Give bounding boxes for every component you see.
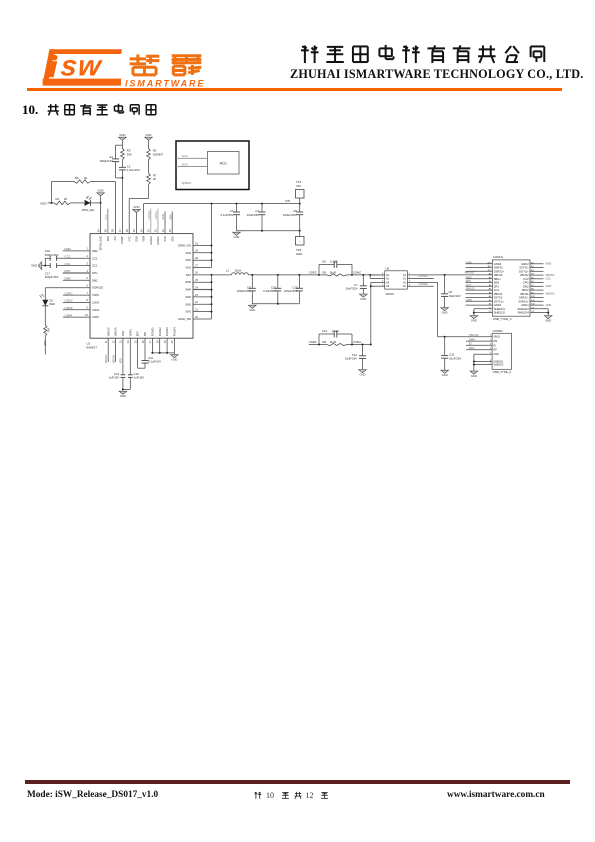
svg-text:VBUSC: VBUSC bbox=[466, 287, 475, 291]
svg-text:SHIELD3: SHIELD3 bbox=[517, 307, 529, 311]
svg-text:GND: GND bbox=[442, 311, 448, 315]
svg-text:VDD: VDD bbox=[121, 331, 125, 337]
svg-text:GND: GND bbox=[146, 133, 152, 137]
svg-text:SBU2: SBU2 bbox=[522, 288, 530, 292]
svg-text:41: 41 bbox=[195, 241, 198, 245]
svg-text:36: 36 bbox=[125, 229, 129, 232]
svg-text:DPA: DPA bbox=[469, 346, 475, 350]
svg-text:CSNA: CSNA bbox=[92, 308, 99, 312]
svg-text:VBUSA: VBUSA bbox=[469, 333, 479, 337]
svg-text:4: 4 bbox=[87, 269, 89, 273]
svg-text:ID: ID bbox=[493, 344, 496, 347]
svg-text:VIN3: VIN3 bbox=[185, 251, 191, 255]
svg-text:CSNC: CSNC bbox=[92, 300, 99, 304]
svg-text:DPC: DPC bbox=[466, 279, 472, 283]
svg-text:GND2: GND2 bbox=[494, 262, 502, 266]
svg-text:40: 40 bbox=[195, 315, 198, 319]
svg-text:GND: GND bbox=[360, 297, 366, 301]
svg-text:GND: GND bbox=[471, 319, 477, 323]
svg-text:D1: D1 bbox=[386, 277, 390, 280]
svg-text:SDA: SDA bbox=[182, 162, 188, 166]
svg-text:1uF/16V: 1uF/16V bbox=[134, 376, 145, 380]
svg-text:VBUSC: VBUSC bbox=[546, 292, 555, 296]
svg-text:G1: G1 bbox=[403, 277, 407, 280]
svg-text:38: 38 bbox=[111, 229, 115, 232]
svg-text:GATEA: GATEA bbox=[419, 282, 429, 286]
svg-text:5: 5 bbox=[87, 276, 89, 280]
svg-text:GATEC: GATEC bbox=[156, 236, 160, 245]
svg-text:32: 32 bbox=[154, 229, 158, 232]
svg-text:37: 37 bbox=[118, 229, 122, 232]
svg-text:GND: GND bbox=[31, 264, 37, 268]
svg-text:GND: GND bbox=[360, 373, 366, 377]
svg-text:ICA: ICA bbox=[113, 236, 117, 241]
svg-text:DP2: DP2 bbox=[523, 281, 529, 285]
svg-text:20: 20 bbox=[170, 340, 174, 343]
svg-text:GND: GND bbox=[120, 394, 126, 398]
svg-text:GATEC: GATEC bbox=[154, 211, 158, 220]
svg-text:SSTX2+: SSTX2+ bbox=[519, 269, 530, 273]
svg-text:CSPA: CSPA bbox=[309, 340, 317, 344]
svg-text:SSRX1+: SSRX1+ bbox=[518, 299, 529, 303]
svg-text:7: 7 bbox=[87, 291, 89, 295]
svg-text:VIN: VIN bbox=[296, 184, 301, 188]
svg-text:VBM: VBM bbox=[142, 236, 146, 242]
svg-text:SSTX1+: SSTX1+ bbox=[494, 299, 505, 303]
svg-text:30: 30 bbox=[168, 229, 172, 232]
svg-text:SW4: SW4 bbox=[185, 288, 191, 292]
svg-text:300pF/16V: 300pF/16V bbox=[45, 253, 59, 257]
svg-text:CC1: CC1 bbox=[494, 288, 500, 292]
svg-text:39: 39 bbox=[104, 229, 108, 232]
svg-text:27: 27 bbox=[195, 263, 198, 267]
svg-text:L1: L1 bbox=[226, 268, 230, 272]
svg-text:SSTX1-: SSTX1- bbox=[494, 296, 504, 300]
svg-text:R5: R5 bbox=[323, 270, 327, 274]
svg-text:CC2: CC2 bbox=[523, 277, 529, 281]
svg-text:17: 17 bbox=[148, 340, 152, 343]
svg-text:VBUS2: VBUS2 bbox=[520, 273, 529, 277]
svg-text:24: 24 bbox=[195, 285, 198, 289]
svg-text:GATEA: GATEA bbox=[149, 236, 153, 245]
svg-text:SSRX2+: SSRX2+ bbox=[494, 269, 505, 273]
svg-text:ID: ID bbox=[469, 342, 472, 346]
svg-text:VIN: VIN bbox=[285, 199, 290, 203]
svg-text:34: 34 bbox=[139, 229, 143, 232]
svg-text:VBUSC: VBUSC bbox=[104, 354, 108, 363]
svg-text:GND: GND bbox=[296, 252, 302, 256]
svg-text:2K: 2K bbox=[84, 176, 88, 180]
svg-text:12: 12 bbox=[111, 340, 115, 343]
svg-text:100uF/25V: 100uF/25V bbox=[283, 213, 297, 217]
svg-text:16: 16 bbox=[141, 340, 145, 343]
svg-text:3: 3 bbox=[87, 261, 89, 265]
svg-text:2K: 2K bbox=[64, 197, 68, 201]
svg-text:GND1: GND1 bbox=[494, 303, 502, 307]
svg-text:CSNA: CSNA bbox=[65, 306, 73, 310]
svg-text:CC2: CC2 bbox=[65, 255, 71, 259]
svg-text:VIN2: VIN2 bbox=[185, 258, 191, 262]
svg-text:SHIELD2: SHIELD2 bbox=[493, 364, 504, 367]
svg-text:U6: U6 bbox=[386, 266, 390, 270]
svg-text:0.1uF: 0.1uF bbox=[332, 329, 339, 333]
svg-text:DPA: DPA bbox=[106, 236, 110, 241]
svg-text:26: 26 bbox=[195, 271, 198, 275]
svg-text:CONN1: CONN1 bbox=[493, 255, 504, 259]
svg-text:CSNC: CSNC bbox=[353, 270, 361, 274]
svg-text:VDRV: VDRV bbox=[128, 329, 132, 336]
svg-text:C12: C12 bbox=[322, 329, 328, 333]
svg-text:10uF/16V: 10uF/16V bbox=[449, 294, 461, 298]
svg-text:30K: 30K bbox=[127, 152, 132, 156]
svg-text:DMC: DMC bbox=[92, 278, 98, 282]
svg-text:2: 2 bbox=[87, 254, 89, 258]
svg-text:SBU1: SBU1 bbox=[494, 277, 502, 281]
svg-text:NOMNT: NOMNT bbox=[153, 152, 164, 156]
svg-text:0.1uF/50V: 0.1uF/50V bbox=[263, 289, 276, 293]
svg-text:5mR: 5mR bbox=[330, 340, 336, 344]
svg-text:PGND4: PGND4 bbox=[173, 327, 177, 336]
svg-text:GND: GND bbox=[135, 236, 139, 242]
svg-text:CC1: CC1 bbox=[65, 262, 71, 266]
svg-text:EPAD_GND: EPAD_GND bbox=[99, 236, 103, 250]
svg-text:SHIELD2: SHIELD2 bbox=[494, 311, 506, 315]
svg-text:23: 23 bbox=[195, 293, 198, 297]
svg-text:DMC: DMC bbox=[466, 275, 472, 279]
svg-text:10: 10 bbox=[85, 313, 88, 317]
svg-text:S2: S2 bbox=[403, 282, 407, 285]
svg-text:-: - bbox=[299, 240, 301, 244]
svg-text:VBUS1: VBUS1 bbox=[520, 292, 529, 296]
svg-text:0.1uF/50V: 0.1uF/50V bbox=[221, 213, 234, 217]
svg-text:NTC: NTC bbox=[127, 236, 131, 241]
svg-text:DMA: DMA bbox=[92, 249, 98, 253]
svg-text:GATEA: GATEA bbox=[147, 211, 151, 220]
svg-text:EA06XT: EA06XT bbox=[87, 346, 98, 350]
svg-text:8: 8 bbox=[87, 298, 89, 302]
svg-text:EPAD_VIN: EPAD_VIN bbox=[178, 244, 191, 248]
svg-text:USB_TYPE_A: USB_TYPE_A bbox=[493, 370, 512, 374]
svg-text:DP: DP bbox=[493, 349, 497, 352]
svg-text:GATEC: GATEC bbox=[419, 274, 429, 278]
svg-text:GND1: GND1 bbox=[521, 303, 529, 307]
svg-text:14: 14 bbox=[126, 340, 130, 343]
svg-text:35: 35 bbox=[132, 229, 136, 232]
svg-text:DPC: DPC bbox=[65, 269, 71, 273]
svg-text:2.2uF/16V: 2.2uF/16V bbox=[127, 168, 140, 172]
svg-text:D2: D2 bbox=[386, 285, 390, 288]
svg-text:RED: RED bbox=[50, 302, 56, 306]
svg-text:100pF/16V: 100pF/16V bbox=[99, 159, 113, 163]
svg-text:BST: BST bbox=[136, 331, 140, 336]
svg-text:DP1: DP1 bbox=[494, 284, 500, 288]
svg-text:5mR: 5mR bbox=[330, 270, 336, 274]
svg-text:9: 9 bbox=[87, 306, 89, 310]
svg-text:28: 28 bbox=[195, 256, 198, 260]
svg-text:19: 19 bbox=[163, 340, 167, 343]
svg-text:CSPC: CSPC bbox=[309, 270, 317, 274]
svg-text:DM2: DM2 bbox=[523, 284, 529, 288]
svg-text:SSRX1-: SSRX1- bbox=[519, 296, 529, 300]
svg-text:220uF/25V: 220uF/25V bbox=[284, 289, 298, 293]
svg-text:D2: D2 bbox=[386, 282, 390, 285]
svg-text:CSPA: CSPA bbox=[92, 315, 99, 319]
svg-text:GND: GND bbox=[546, 262, 552, 266]
svg-text:GND: GND bbox=[442, 373, 448, 377]
svg-text:29: 29 bbox=[195, 249, 198, 253]
svg-text:VBUSC: VBUSC bbox=[465, 270, 475, 274]
svg-text:SDA: SDA bbox=[170, 236, 174, 242]
svg-text:SCK: SCK bbox=[161, 214, 165, 220]
svg-text:EPAD_SW: EPAD_SW bbox=[179, 317, 192, 321]
svg-text:GND: GND bbox=[133, 205, 139, 209]
svg-text:C8: C8 bbox=[322, 260, 326, 264]
svg-text:SW3: SW3 bbox=[185, 295, 191, 299]
svg-text:SDA: SDA bbox=[168, 214, 172, 220]
svg-text:DPA: DPA bbox=[104, 214, 108, 219]
svg-text:GND: GND bbox=[466, 298, 472, 302]
svg-text:PGND1: PGND1 bbox=[151, 327, 155, 336]
svg-text:10uF/25V: 10uF/25V bbox=[247, 213, 259, 217]
svg-text:SSRX2-: SSRX2- bbox=[494, 266, 504, 270]
svg-text:22uH: 22uH bbox=[235, 268, 242, 272]
svg-text:CSPA: CSPA bbox=[65, 313, 73, 317]
svg-text:33: 33 bbox=[147, 229, 151, 232]
svg-text:SSTX2-: SSTX2- bbox=[519, 266, 529, 270]
svg-text:VBUSA: VBUSA bbox=[114, 327, 118, 336]
svg-text:GND: GND bbox=[471, 374, 477, 378]
svg-text:0.1uF: 0.1uF bbox=[330, 260, 337, 264]
svg-text:DMA: DMA bbox=[65, 247, 71, 251]
svg-text:VBUS: VBUS bbox=[493, 336, 500, 339]
svg-text:22: 22 bbox=[195, 300, 198, 304]
svg-text:PWR_LED: PWR_LED bbox=[82, 208, 95, 212]
svg-text:GND: GND bbox=[249, 308, 255, 312]
svg-text:CC2: CC2 bbox=[546, 277, 552, 281]
svg-text:GND: GND bbox=[98, 189, 104, 193]
svg-text:10uF/25V: 10uF/25V bbox=[345, 287, 357, 291]
svg-text:DM: DM bbox=[493, 340, 497, 343]
svg-text:1uF/16V: 1uF/16V bbox=[109, 376, 120, 380]
svg-text:11: 11 bbox=[104, 340, 108, 343]
svg-text:31: 31 bbox=[161, 229, 165, 232]
svg-text:SW1: SW1 bbox=[185, 310, 191, 314]
svg-text:GND: GND bbox=[493, 353, 499, 356]
svg-text:300pF/16V: 300pF/16V bbox=[45, 275, 59, 279]
svg-text:GND: GND bbox=[171, 358, 177, 362]
svg-text:IODFLED: IODFLED bbox=[92, 286, 103, 290]
svg-text:21: 21 bbox=[195, 307, 198, 311]
svg-text:CSNC: CSNC bbox=[65, 299, 73, 303]
svg-text:SHIELD1: SHIELD1 bbox=[494, 307, 506, 311]
svg-text:COMP: COMP bbox=[120, 236, 124, 244]
svg-text:CC1: CC1 bbox=[466, 283, 472, 287]
svg-text:USB_TYPE_C: USB_TYPE_C bbox=[493, 317, 512, 321]
svg-text:6: 6 bbox=[87, 284, 89, 288]
svg-text:0.1uF/16V: 0.1uF/16V bbox=[148, 360, 161, 364]
svg-text:SW5: SW5 bbox=[185, 280, 191, 284]
svg-text:15: 15 bbox=[133, 340, 137, 343]
svg-text:MCU: MCU bbox=[220, 162, 228, 166]
svg-text:GND: GND bbox=[546, 284, 552, 288]
svg-text:R4: R4 bbox=[56, 197, 60, 201]
svg-text:10uF/25V: 10uF/25V bbox=[345, 357, 357, 361]
svg-text:DMC: DMC bbox=[65, 277, 72, 281]
svg-text:VDD: VDD bbox=[119, 358, 123, 364]
svg-text:GND: GND bbox=[546, 303, 552, 307]
svg-text:CC1: CC1 bbox=[92, 264, 98, 268]
svg-text:GND: GND bbox=[466, 260, 472, 264]
svg-text:CSPC: CSPC bbox=[65, 291, 73, 295]
svg-text:GND: GND bbox=[234, 235, 240, 239]
svg-text:BAT: BAT bbox=[186, 273, 191, 277]
svg-text:PGND2: PGND2 bbox=[158, 327, 162, 336]
svg-text:2K: 2K bbox=[153, 177, 157, 181]
svg-text:3K9: 3K9 bbox=[46, 328, 50, 333]
svg-text:GND: GND bbox=[119, 133, 125, 137]
svg-text:42: 42 bbox=[96, 229, 100, 232]
svg-text:VBUSC: VBUSC bbox=[546, 273, 555, 277]
svg-text:PGND3: PGND3 bbox=[165, 327, 169, 336]
svg-text:VIN1: VIN1 bbox=[185, 266, 191, 270]
svg-text:VDD: VDD bbox=[43, 340, 47, 346]
svg-text:1: 1 bbox=[87, 247, 89, 251]
svg-text:VBUS2: VBUS2 bbox=[494, 273, 503, 277]
svg-text:CONN2: CONN2 bbox=[493, 329, 504, 333]
svg-text:SW2: SW2 bbox=[185, 302, 191, 306]
svg-text:CSNA: CSNA bbox=[353, 340, 361, 344]
svg-text:VBUSA: VBUSA bbox=[111, 354, 115, 363]
svg-text:CC2: CC2 bbox=[92, 256, 98, 260]
svg-text:GND: GND bbox=[545, 319, 551, 323]
svg-text:13: 13 bbox=[119, 340, 123, 343]
svg-text:CSPC: CSPC bbox=[92, 293, 99, 297]
svg-text:10uF/16V: 10uF/16V bbox=[449, 356, 461, 360]
svg-text:R5: R5 bbox=[75, 176, 79, 180]
svg-text:DPC: DPC bbox=[92, 271, 98, 275]
svg-text:R6: R6 bbox=[323, 340, 327, 344]
svg-text:GND2: GND2 bbox=[521, 262, 529, 266]
svg-text:SCK: SCK bbox=[182, 154, 188, 158]
svg-text:220uF/25V: 220uF/25V bbox=[237, 289, 251, 293]
svg-text:DM1: DM1 bbox=[494, 281, 500, 285]
svg-text:18: 18 bbox=[156, 340, 160, 343]
svg-text:SW: SW bbox=[143, 331, 147, 336]
svg-text:VBUSC: VBUSC bbox=[106, 327, 110, 336]
svg-text:G2: G2 bbox=[403, 285, 407, 288]
svg-text:option: option bbox=[182, 181, 192, 185]
svg-text:VBUS1: VBUS1 bbox=[494, 292, 503, 296]
svg-text:VDD: VDD bbox=[40, 201, 47, 205]
svg-text:-: - bbox=[299, 193, 301, 197]
svg-text:25: 25 bbox=[195, 278, 198, 282]
svg-text:SHIELD4: SHIELD4 bbox=[517, 311, 529, 315]
svg-text:NMOS: NMOS bbox=[386, 292, 395, 296]
svg-text:SCK: SCK bbox=[163, 236, 167, 242]
